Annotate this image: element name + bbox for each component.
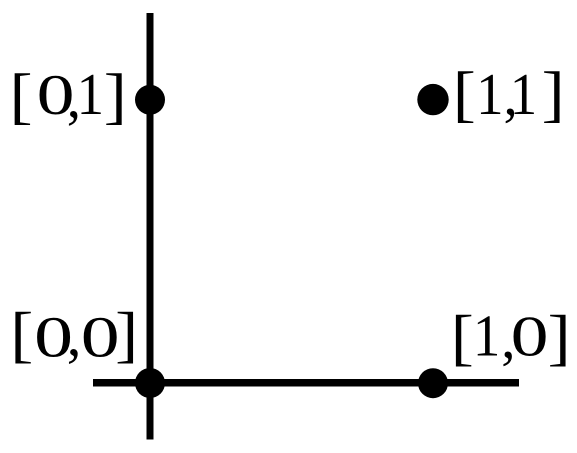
point [0,1] [135, 85, 165, 115]
label [1,1] [453, 59, 565, 128]
y-axis [147, 13, 154, 440]
label [1,0] [451, 303, 571, 372]
svg-text:]: ] [542, 59, 565, 128]
svg-text:,: , [67, 303, 82, 368]
point [1,1] [417, 84, 448, 115]
svg-text:[: [ [10, 300, 33, 369]
svg-text:0: 0 [511, 304, 549, 368]
svg-text:1: 1 [473, 304, 500, 369]
svg-text:1: 1 [77, 62, 104, 127]
svg-text:[: [ [453, 59, 476, 128]
point [0,0] [135, 368, 165, 398]
svg-text:0: 0 [81, 305, 120, 370]
label [0,1] [9, 61, 126, 130]
x-axis [93, 379, 519, 387]
svg-text:]: ] [115, 300, 138, 369]
svg-text:]: ] [548, 303, 571, 372]
svg-text:1: 1 [476, 62, 503, 127]
svg-text:[: [ [9, 61, 32, 130]
svg-text:]: ] [104, 61, 127, 130]
point [1,0] [418, 368, 448, 398]
svg-text:1: 1 [510, 62, 537, 127]
svg-text:[: [ [451, 303, 474, 372]
label [0,0] [10, 300, 138, 369]
